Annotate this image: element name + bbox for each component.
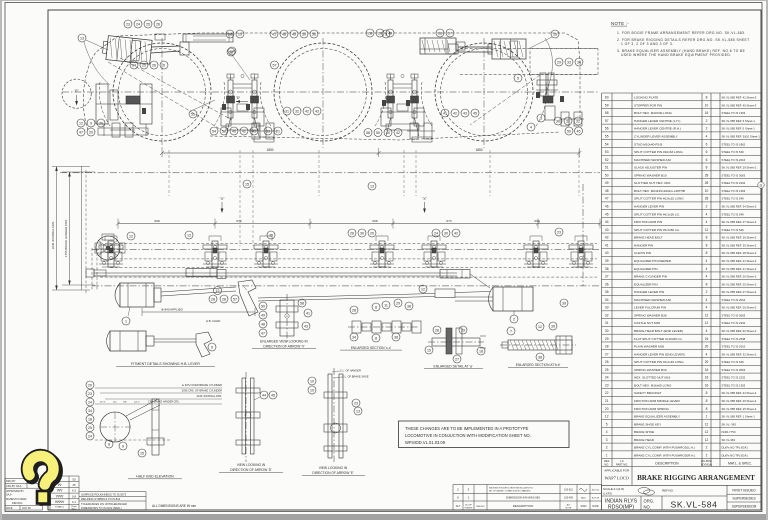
svg-text:RDSO(MP): RDSO(MP) [608,505,634,511]
svg-text:24: 24 [434,231,438,235]
svg-text:SPLIT COTTER PIN #6.3x80 LG.: SPLIT COTTER PIN #6.3x80 LG. [634,228,680,232]
svg-text:21: 21 [605,399,609,403]
svg-text:SURFACE ROUGHNESS TO IS:307: SURFACE ROUGHNESS TO IS:3073 [81,492,127,496]
svg-text:43: 43 [315,109,319,113]
svg-text:8: 8 [375,305,377,309]
svg-text:12: 12 [705,422,709,426]
svg-text:17: 17 [448,31,452,35]
svg-text:TOLERANCES ON UNTOLERANCED: TOLERANCES ON UNTOLERANCED [81,502,127,506]
svg-text:0.8: 0.8 [72,494,76,498]
svg-text:40: 40 [232,129,236,133]
svg-text:0.1: 0.1 [72,500,76,504]
svg-text:32: 32 [605,313,609,317]
svg-text:2: 2 [706,119,708,123]
svg-text:VIEW LOOKING IN: VIEW LOOKING IN [237,463,266,467]
svg-text:18: 18 [479,349,483,353]
svg-text:12: 12 [705,430,709,434]
svg-text:21: 21 [276,129,280,133]
svg-text:7: 7 [510,329,512,333]
svg-text:EQUALIZER PIN: EQUALIZER PIN [634,282,658,286]
svg-text:12: 12 [705,321,709,325]
svg-text:30: 30 [360,231,364,235]
svg-text:1: 1 [125,319,127,323]
svg-text:8: 8 [706,166,708,170]
svg-text:16: 16 [705,376,709,380]
svg-text:ENLARGED VIEW LOOKING IN: ENLARGED VIEW LOOKING IN [260,339,308,343]
svg-text:SPRING WASHER B16: SPRING WASHER B16 [634,368,667,372]
svg-text:SPLIT COTTER PIN #6.3x36 LG.: SPLIT COTTER PIN #6.3x36 LG. [634,212,680,216]
svg-text:2: 2 [706,446,708,450]
svg-text:4: 4 [706,306,708,310]
svg-text:2: 2 [706,290,708,294]
svg-text:58: 58 [605,111,609,115]
svg-text:29: 29 [396,301,400,305]
svg-text:33: 33 [605,306,609,310]
svg-text:STEEL TO IS 2232: STEEL TO IS 2232 [722,181,746,185]
svg-text:25: 25 [142,63,146,67]
svg-text:48: 48 [282,32,286,36]
svg-text:28: 28 [605,345,609,349]
svg-text:8: 8 [706,407,708,411]
svg-text:57: 57 [273,63,277,67]
svg-text:24: 24 [705,337,709,341]
svg-text:STEEL TO IS 549: STEEL TO IS 549 [722,150,745,154]
svg-text:L.F: L.F [620,459,624,463]
svg-text:8: 8 [706,96,708,100]
svg-text:50: 50 [261,304,265,308]
svg-text:8: 8 [706,236,708,240]
svg-text:FLAT SPLIT COTTER 6x10x80 LG.: FLAT SPLIT COTTER 6x10x80 LG. [634,337,683,341]
svg-text:42: 42 [305,109,309,113]
svg-text:DESCRIPTION: DESCRIPTION [513,504,534,508]
svg-text:2240 JOURNAL CRS.: 2240 JOURNAL CRS. [197,394,223,398]
svg-text:8: 8 [706,282,708,286]
svg-text:BOLT HEX. M16x65 LONG: BOLT HEX. M16x65 LONG [634,383,672,387]
svg-text:28: 28 [350,231,354,235]
svg-text:BRAKE SHOE: BRAKE SHOE [634,430,654,434]
svg-text:STEEL TO IS 2016: STEEL TO IS 2016 [722,345,746,349]
svg-text:34: 34 [88,409,92,413]
svg-text:34: 34 [577,60,581,64]
svg-text:INDIAN RLYS: INDIAN RLYS [605,498,638,504]
svg-text:13: 13 [370,184,374,188]
svg-text:H.B. CHAIN: H.B. CHAIN [206,319,220,323]
svg-text:58: 58 [300,301,304,305]
svg-text:6: 6 [706,158,708,162]
svg-text:∇∇∇∇∇: ∇∇∇∇∇ [54,500,65,504]
svg-text:STEEL TO IS 2016: STEEL TO IS 2016 [722,158,746,162]
svg-text:2: 2 [513,317,515,321]
svg-text:4: 4 [606,430,608,434]
svg-text:NOTE :-: NOTE :- [611,21,629,26]
svg-text:SCALE:1:1(1:8): SCALE:1:1(1:8) [603,487,624,491]
svg-text:STOPPER FOR PIN: STOPPER FOR PIN [634,103,662,107]
svg-text:33: 33 [567,60,571,64]
svg-text:ENLARGED DETAIL AT 'a': ENLARGED DETAIL AT 'a' [434,364,473,368]
svg-text:38: 38 [605,267,609,271]
svg-text:100-406: 100-406 [564,497,573,500]
svg-text:27: 27 [605,352,609,356]
svg-text:50: 50 [302,32,306,36]
svg-text:2: 2 [706,453,708,457]
svg-text:25: 25 [605,368,609,372]
svg-text:54: 54 [212,129,216,133]
svg-text:FRICTION ARM PIN: FRICTION ARM PIN [634,220,662,224]
svg-text:SLACK ADJUSTER PIN: SLACK ADJUSTER PIN [634,166,667,170]
svg-text:41: 41 [272,32,276,36]
svg-text:HEX. SLOTTED NUT M16: HEX. SLOTTED NUT M16 [634,376,671,380]
svg-text:DATE: DATE [6,507,13,510]
svg-text:10: 10 [310,379,314,383]
svg-text:15: 15 [140,451,144,455]
svg-text:23: 23 [605,383,609,387]
svg-text:WAP7 LOCO: WAP7 LOCO [604,476,629,481]
svg-text:5: 5 [606,422,608,426]
svg-text:FITMENT DETAILS SHOWING H.B: FITMENT DETAILS SHOWING H.B. LEVER [131,362,200,366]
svg-text:MAHESH KUMAR: MAHESH KUMAR [6,498,27,501]
svg-text:SPLIT COTTER PIN #3.2x40 LONG: SPLIT COTTER PIN #3.2x40 LONG [634,360,684,364]
svg-text:43: 43 [463,111,467,115]
svg-text:31: 31 [566,119,570,123]
svg-text:51: 51 [605,166,609,170]
svg-text:34: 34 [605,298,609,302]
svg-text:STUD M10x40-PS.B: STUD M10x40-PS.B [634,142,662,146]
svg-text:STEEL TO IS 2232: STEEL TO IS 2232 [722,376,746,380]
svg-text:2: 2 [706,127,708,131]
svg-text:698: 698 [534,219,539,223]
svg-text:50: 50 [605,173,609,177]
svg-text:NO.: NO. [644,505,651,510]
svg-text:1 OF 3, 2 OF 3 AND 3 OF 3.: 1 OF 3, 2 OF 3 AND 3 OF 3. [621,42,674,46]
svg-text:47: 47 [79,130,83,134]
svg-text:THESE CHANGES ARE TO BE I: THESE CHANGES ARE TO BE IMPLEMENTED IN A… [405,426,529,431]
svg-text:DIMENSIONS TO IS:2102 (MED.: DIMENSIONS TO IS:2102 (MED.) [81,506,122,510]
svg-text:SPRING WASHER B10: SPRING WASHER B10 [634,173,667,177]
svg-text:48: 48 [261,322,265,326]
svg-text:NOTE: NOTE [566,507,572,509]
svg-text:STEEL TO IS 549: STEEL TO IS 549 [722,228,745,232]
svg-text:20: 20 [370,231,374,235]
svg-text:50: 50 [72,477,76,481]
svg-text:HANGER LEVER CENTRE (R.H.): HANGER LEVER CENTRE (R.H.) [634,127,681,131]
svg-text:28: 28 [352,308,356,312]
svg-text:46: 46 [605,205,609,209]
svg-text:58: 58 [229,50,233,54]
svg-text:8: 8 [706,243,708,247]
svg-text:22: 22 [605,391,609,395]
svg-text:16: 16 [705,383,709,387]
svg-text:DIRECTION OF ARROW 'X': DIRECTION OF ARROW 'X' [263,344,305,348]
svg-text:20: 20 [605,407,609,411]
svg-text:USED WHERE THE HAND BRAKE EQUI: USED WHERE THE HAND BRAKE EQUIPMENT PROV… [621,53,732,57]
svg-text:26: 26 [152,63,156,67]
svg-text:30: 30 [556,119,560,123]
svg-text:BRAKE HEAD: BRAKE HEAD [634,438,655,442]
svg-text:PLATES: PLATES [465,506,473,509]
svg-text:PART NO.: PART NO. [616,462,628,466]
svg-text:40: 40 [386,131,390,135]
svg-text:DIRECTION OF ARROW 'E': DIRECTION OF ARROW 'E' [312,471,354,475]
svg-text:39: 39 [605,259,609,263]
svg-text:SK.VL-585 REF. 25 Sheet-3: SK.VL-585 REF. 25 Sheet-3 [722,407,757,411]
svg-text:100-612: 100-612 [564,489,573,492]
svg-text:16: 16 [705,111,709,115]
svg-text:MACHINED WASHER A36: MACHINED WASHER A36 [634,298,671,302]
svg-text:BRAKE EQUALIZER ASSEMBLY: BRAKE EQUALIZER ASSEMBLY [634,415,680,419]
svg-text:13: 13 [80,36,84,40]
svg-text:41: 41 [443,111,447,115]
svg-text:4: 4 [706,352,708,356]
svg-text:STEEL TO IS 2232: STEEL TO IS 2232 [722,321,746,325]
svg-text:59: 59 [605,103,609,107]
svg-text:ORG.: ORG. [644,499,655,504]
svg-text:23: 23 [354,401,358,405]
svg-text:SAFETY BRACKET: SAFETY BRACKET [634,391,662,395]
svg-text:57: 57 [233,297,237,301]
svg-text:8.07.09: 8.07.09 [592,498,600,500]
svg-text:4: 4 [706,259,708,263]
svg-text:(L.KFS): (L.KFS) [603,492,612,496]
svg-text:"X": "X" [422,197,427,201]
svg-text:⊕ 840 APPLIED: ⊕ 840 APPLIED [161,308,184,312]
svg-text:28: 28 [705,181,709,185]
svg-text:SK.VL-585 REF. 34 Sheet-2: SK.VL-585 REF. 34 Sheet-2 [722,205,757,209]
svg-text:13: 13 [356,409,360,413]
svg-text:45: 45 [605,212,609,216]
svg-text:4: 4 [706,298,708,302]
svg-text:41: 41 [306,311,310,315]
svg-text:NO.OF: NO.OF [465,504,472,506]
svg-text:SK.VL-585 REF. 44 Sheet-3: SK.VL-585 REF. 44 Sheet-3 [722,391,757,395]
svg-text:CLEVIS PIN: CLEVIS PIN [634,251,651,255]
svg-text:SPLIT COTTER PIN #10x63 LONG: SPLIT COTTER PIN #10x63 LONG [634,150,683,154]
svg-text:STEEL TO IS 1363: STEEL TO IS 1363 [722,111,746,115]
svg-text:ALL DIMENSIONS ARE IN mm: ALL DIMENSIONS ARE IN mm [152,504,197,508]
svg-text:47: 47 [605,197,609,201]
svg-text:9: 9 [385,32,387,36]
svg-text:45: 45 [473,111,477,115]
svg-text:30: 30 [605,329,609,333]
svg-text:BOLT HEX. M24F15x100LG.x30THB: BOLT HEX. M24F15x100LG.x30THB [634,189,685,193]
svg-text:RE. OF 30A WE. 17 WAS 40 MOD C: RE. OF 30A WE. 17 WAS 40 MOD CHANGED. [489,489,531,492]
svg-text:28: 28 [435,328,439,332]
svg-text:9: 9 [122,444,124,448]
svg-text:5: 5 [517,76,519,80]
svg-text:1: 1 [706,415,708,419]
svg-text:30: 30 [444,231,448,235]
svg-text:SK.VL-585 REF. 26 Sheet-2: SK.VL-585 REF. 26 Sheet-2 [722,306,757,310]
svg-text:SK.VL-585 REF. 3&10 Sheet-1: SK.VL-585 REF. 3&10 Sheet-1 [722,135,761,139]
svg-text:29: 29 [557,60,561,64]
svg-text:∇∇∇: ∇∇∇ [56,489,64,493]
svg-text:G: G [760,184,763,188]
svg-text:8: 8 [375,336,377,340]
svg-text:BRAKE CYLINDER PIN: BRAKE CYLINDER PIN [634,275,667,279]
svg-text:SK.VL-585 REF. 5 Sheet-1: SK.VL-585 REF. 5 Sheet-1 [722,127,756,131]
svg-text:26: 26 [605,360,609,364]
svg-text:45: 45 [577,129,581,133]
svg-text:27: 27 [455,357,459,361]
svg-text:12: 12 [605,415,609,419]
svg-text:4: 4 [706,275,708,279]
svg-text:STEEL TO IS 1862: STEEL TO IS 1862 [722,142,746,146]
svg-text:49: 49 [292,32,296,36]
svg-text:SK.VL-585 REF. 41 Sheet-3: SK.VL-585 REF. 41 Sheet-3 [722,96,757,100]
svg-text:8: 8 [706,399,708,403]
svg-text:34: 34 [352,335,356,339]
svg-text:117.5: 117.5 [100,402,106,404]
svg-text:8: 8 [706,251,708,255]
svg-text:IS/90-Y753: IS/90-Y753 [722,430,736,434]
svg-text:28: 28 [211,297,215,301]
svg-text:MACHINED WASHER A32: MACHINED WASHER A32 [634,158,671,162]
svg-text:HANGER PIN: HANGER PIN [634,243,653,247]
svg-text:DIMENSION 640 WAS 660: DIMENSION 640 WAS 660 [506,496,540,500]
svg-text:37: 37 [605,275,609,279]
svg-text:48: 48 [605,189,609,193]
svg-text:PLAIN WASHER M26: PLAIN WASHER M26 [634,345,664,349]
svg-text:42: 42 [454,231,458,235]
svg-text:BRAKE CYL.COMP. WITH PUSHROD(R: BRAKE CYL.COMP. WITH PUSHROD(R.H.) [634,453,695,457]
svg-text:28: 28 [228,32,232,36]
svg-text:SK.VL-585 REF. 28 Sheet-2: SK.VL-585 REF. 28 Sheet-2 [722,251,757,255]
svg-text:SK.VL-585 REF. 62 Sheet-2: SK.VL-585 REF. 62 Sheet-2 [722,329,757,333]
svg-text:BOLT HEX. M10X40 LONG: BOLT HEX. M10X40 LONG [634,111,672,115]
svg-text:STEEL TO IS 3063: STEEL TO IS 3063 [722,368,746,372]
svg-text:29: 29 [461,328,465,332]
svg-text:44: 44 [262,393,266,397]
svg-text:∇∇∇∇: ∇∇∇∇ [55,494,65,498]
svg-text:60: 60 [605,96,609,100]
svg-text:43: 43 [605,228,609,232]
svg-text:HANGER LEVER PIN: HANGER LEVER PIN [634,205,664,209]
svg-text:LOCKING PLATE: LOCKING PLATE [634,96,658,100]
svg-text:50: 50 [376,131,380,135]
svg-text:32: 32 [576,119,580,123]
svg-text:DRG.BY: DRG.BY [6,480,16,483]
svg-text:NO./BOG: NO./BOG [701,460,712,463]
svg-text:3: 3 [606,438,608,442]
svg-text:SK.VL- 363: SK.VL- 363 [722,422,737,426]
svg-text:C.L. OF BRAKE SHOE: C.L. OF BRAKE SHOE [342,375,369,379]
svg-text:49: 49 [261,313,265,317]
svg-text:REF.NO.: REF.NO. [662,489,674,493]
svg-text:31: 31 [605,321,609,325]
svg-text:SIGN: SIGN [581,505,587,508]
svg-text:4: 4 [706,329,708,333]
svg-text:4: 4 [706,212,708,216]
svg-text:11: 11 [384,303,388,307]
svg-text:"X": "X" [220,197,225,201]
svg-text:57: 57 [605,119,609,123]
svg-text:STEEL TO IS 549: STEEL TO IS 549 [722,360,745,364]
svg-text:SUPERSEDES: SUPERSEDES [732,496,756,500]
svg-text:FRICTION ARM MIDDLE LEVER: FRICTION ARM MIDDLE LEVER [634,399,680,403]
svg-text:SK.VL-585 REF. 1 Sheet-1: SK.VL-585 REF. 1 Sheet-1 [722,415,756,419]
svg-text:1. FOR BOGIE FRAME ARRANGEMENT: 1. FOR BOGIE FRAME ARRANGEMENT REFER DRG… [617,31,746,35]
svg-text:42: 42 [396,131,400,135]
svg-text:50: 50 [567,129,571,133]
svg-text:38: 38 [394,335,398,339]
svg-text:25: 25 [88,426,92,430]
svg-text:BRAKE HEAD BOLT: BRAKE HEAD BOLT [634,236,663,240]
svg-text:HANGER LEVER PIN (END LEVER): HANGER LEVER PIN (END LEVER) [634,352,685,356]
svg-text:HALF END ELEVATION: HALF END ELEVATION [136,475,174,479]
svg-text:13: 13 [187,233,191,237]
svg-text:SPLIT COTTER PIN #2.8x32 LONG: SPLIT COTTER PIN #2.8x32 LONG [634,197,684,201]
svg-text:36: 36 [605,282,609,286]
svg-text:LEVER FULCRUM PIN: LEVER FULCRUM PIN [634,306,666,310]
svg-text:42: 42 [453,111,457,115]
svg-text:SK.VL-585 REF. 27 Sheet-2: SK.VL-585 REF. 27 Sheet-2 [722,290,757,294]
svg-text:28: 28 [222,297,226,301]
svg-text:'E': 'E' [75,89,79,93]
svg-text:SK.VL-363: SK.VL-363 [722,438,736,442]
svg-text:56: 56 [605,127,609,131]
svg-text:SK.VL-585 REF. 40 Sheet-3: SK.VL-585 REF. 40 Sheet-3 [722,103,757,107]
svg-text:55: 55 [605,135,609,139]
svg-text:1: 1 [606,453,608,457]
svg-text:2240 JOURNAL CRS.: 2240 JOURNAL CRS. [51,221,55,250]
svg-text:HANGER LEVER CENTRE (L.H.): HANGER LEVER CENTRE (L.H.) [634,119,680,123]
svg-text:2036 CRS. OF BRAKE CYLINDER: 2036 CRS. OF BRAKE CYLINDER [182,389,222,393]
svg-text:35: 35 [605,290,609,294]
svg-text:698: 698 [372,219,377,223]
svg-text:SK.VL-585 REF. 5 Sheet-1: SK.VL-585 REF. 5 Sheet-1 [722,119,756,123]
svg-text:52: 52 [605,158,609,162]
svg-text:6: 6 [706,150,708,154]
svg-text:39: 39 [562,301,566,305]
svg-text:WP.MOD.VL.01.03.09: WP.MOD.VL.01.03.09 [405,440,446,445]
svg-text:DATE: DATE [592,505,599,508]
svg-text:MATL. & SPEC.: MATL. & SPEC. [728,461,752,465]
svg-text:SK.VL-585 REF. 25 Sheet-2: SK.VL-585 REF. 25 Sheet-2 [722,282,757,286]
svg-text:BRAKE RIGGING ARRANGEMENT: BRAKE RIGGING ARRANGEMENT [637,474,755,482]
svg-text:31: 31 [285,109,289,113]
svg-text:47: 47 [261,331,265,335]
svg-text:SK.VL-585 REF. 26 Sheet-2: SK.VL-585 REF. 26 Sheet-2 [722,275,757,279]
svg-text:24: 24 [136,22,140,26]
svg-text:'D': 'D' [236,96,240,100]
svg-text:12: 12 [538,325,542,329]
svg-text:SK.VL-585 REF. 32 Sheet-2: SK.VL-585 REF. 32 Sheet-2 [722,352,757,356]
svg-text:221.5: 221.5 [134,402,140,404]
svg-text:20: 20 [705,345,709,349]
svg-text:SAJ/-: SAJ/- [581,497,587,500]
svg-text:VIEW LOOKING IN: VIEW LOOKING IN [319,466,348,470]
svg-text:53: 53 [266,129,270,133]
svg-text:FIRST ISSUED: FIRST ISSUED [732,488,756,492]
svg-text:1755 BRAKE HANGER CRS.: 1755 BRAKE HANGER CRS. [64,219,68,257]
svg-text:SK.VL-584: SK.VL-584 [671,500,718,510]
svg-text:STEEL TO IS 1363: STEEL TO IS 1363 [722,383,746,387]
svg-text:19: 19 [310,388,314,392]
svg-text:SK.VL-585 REF. 26 Sheet-2: SK.VL-585 REF. 26 Sheet-2 [722,236,757,240]
svg-text:SYMBOL: SYMBOL [55,507,65,509]
svg-text:CASTLE NUT M36: CASTLE NUT M36 [634,321,660,325]
svg-text:41: 41 [252,129,256,133]
svg-text:STEEL TO IS 549: STEEL TO IS 549 [722,197,745,201]
svg-text:12: 12 [421,287,425,291]
svg-text:SLOTTED NUT HEX. M10: SLOTTED NUT HEX. M10 [634,181,671,185]
svg-text:LOCOMOTIVE IN CONJUCTION WI: LOCOMOTIVE IN CONJUCTION WITH MODIFICATI… [405,433,531,438]
svg-text:41: 41 [605,243,609,247]
svg-text:39: 39 [551,324,555,328]
svg-text:⊕ 2072 OVER BRAKE CYLINDER: ⊕ 2072 OVER BRAKE CYLINDER [182,383,222,387]
svg-text:42: 42 [605,236,609,240]
svg-text:20: 20 [705,360,709,364]
svg-text:44: 44 [605,220,609,224]
